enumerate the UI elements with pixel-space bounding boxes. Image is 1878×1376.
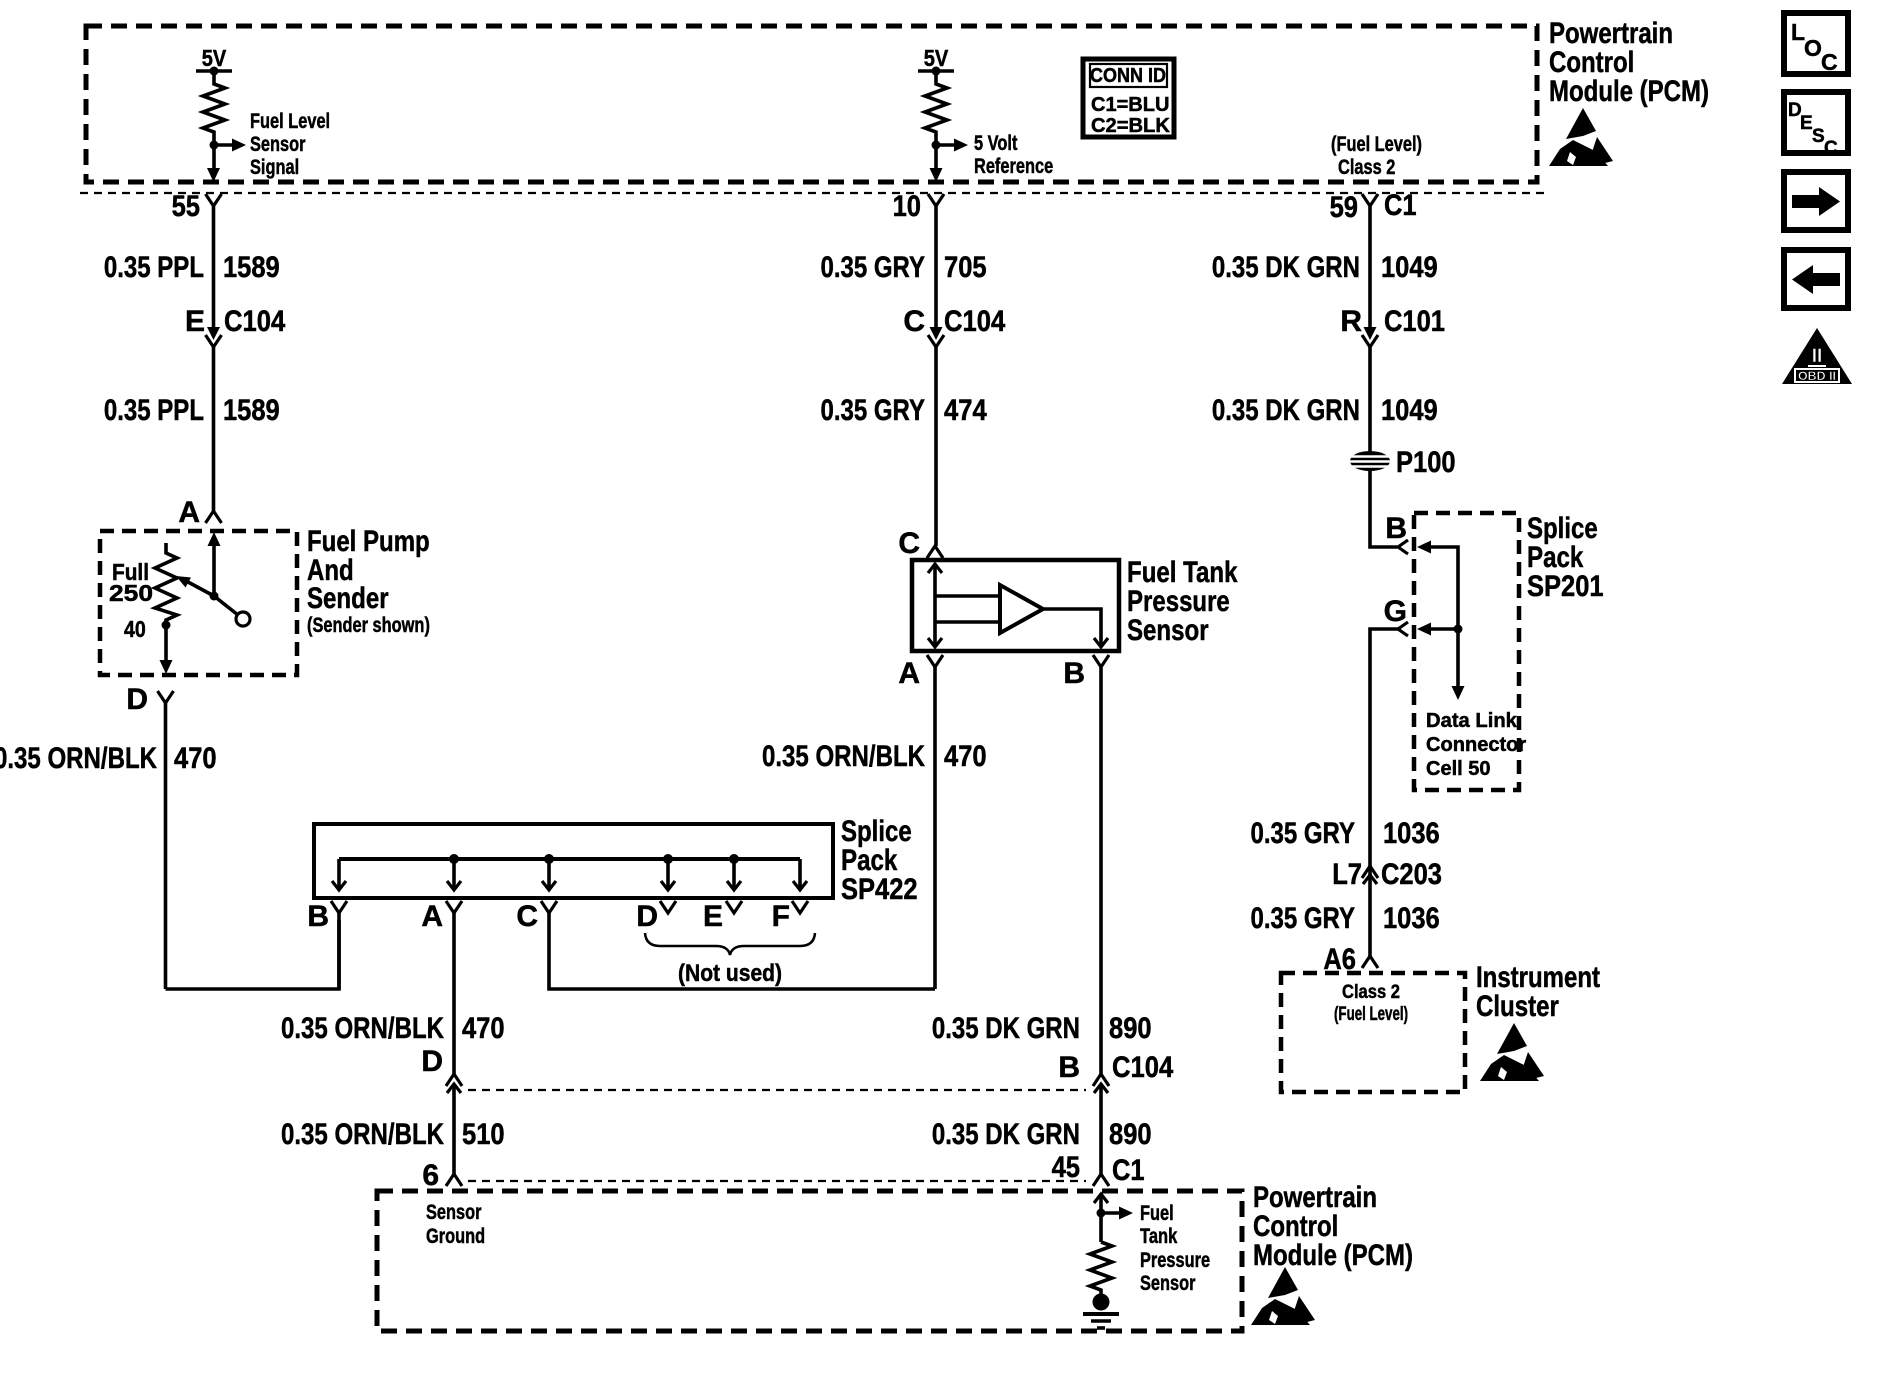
node at 40 tap — [162, 621, 171, 630]
ESD symbol (top PCM) — [1549, 108, 1613, 166]
Instrument Cluster dashed box — [1281, 973, 1465, 1092]
ground symbol — [1093, 1294, 1110, 1311]
svg-text:55: 55 — [172, 190, 200, 223]
svg-text:1049: 1049 — [1381, 394, 1438, 427]
svg-text:P100: P100 — [1396, 446, 1456, 479]
svg-text:B: B — [307, 900, 329, 933]
arrow: Fuel Level Sensor Signal — [214, 143, 233, 147]
svg-text:705: 705 — [944, 251, 987, 284]
svg-text:40: 40 — [124, 616, 146, 642]
svg-text:0.35 DK GRN: 0.35 DK GRN — [1212, 394, 1360, 427]
svg-text:474: 474 — [944, 394, 987, 427]
svg-text:F: F — [772, 900, 790, 933]
svg-text:470: 470 — [174, 742, 217, 775]
svg-text:C: C — [516, 900, 538, 933]
svg-text:0.35 GRY: 0.35 GRY — [1251, 902, 1356, 935]
amp input branches — [935, 594, 1000, 598]
svg-text:0.35 DK GRN: 0.35 DK GRN — [932, 1118, 1080, 1151]
svg-text:D: D — [126, 683, 148, 716]
svg-text:59: 59 — [1330, 191, 1358, 224]
svg-text:L7: L7 — [1332, 858, 1362, 891]
wire to splice pack B — [166, 920, 340, 989]
svg-text:Ground: Ground — [426, 1225, 485, 1248]
thin dashed connector line C104 (bottom) — [468, 1089, 1086, 1091]
arrow up into pump at A — [208, 532, 221, 546]
svg-text:6: 6 — [422, 1159, 439, 1192]
bus drop E — [729, 854, 739, 864]
svg-text:Signal: Signal — [250, 156, 299, 179]
sidebar icon back arrow — [1784, 250, 1848, 308]
svg-text:C104: C104 — [224, 305, 285, 338]
svg-text:Pressure: Pressure — [1140, 1249, 1210, 1272]
svg-text:C: C — [1821, 49, 1838, 75]
sidebar icon LOC — [1784, 13, 1848, 74]
arrow down to pin 55 — [207, 168, 220, 182]
svg-text:Fuel Level: Fuel Level — [250, 110, 330, 133]
svg-text:Cluster: Cluster — [1476, 990, 1559, 1023]
wire SP422 A down — [452, 913, 456, 1075]
svg-text:1036: 1036 — [1383, 902, 1440, 935]
wire sensor B down — [1099, 667, 1103, 1075]
sensor internal supply line — [933, 564, 937, 647]
wire sensor A down — [933, 667, 937, 989]
svg-text:Data Link: Data Link — [1426, 710, 1518, 732]
svg-text:Module (PCM): Module (PCM) — [1253, 1239, 1413, 1272]
svg-text:E: E — [1800, 113, 1813, 134]
svg-text:0.35 ORN/BLK: 0.35 ORN/BLK — [762, 740, 925, 773]
svg-text:0.35 PPL: 0.35 PPL — [104, 394, 204, 427]
brace (Not used) — [645, 933, 815, 955]
wire C104 to pump A — [212, 347, 216, 512]
Fuel Tank Pressure Sensor box — [912, 560, 1119, 651]
wire G down to cluster — [1370, 629, 1398, 956]
SP201 internal arrow down to DLC — [1456, 629, 1460, 688]
svg-text:CONN ID: CONN ID — [1090, 65, 1166, 87]
svg-text:C104: C104 — [1112, 1051, 1173, 1084]
svg-text:C101: C101 — [1384, 305, 1445, 338]
op-amp (sensor amplifier) — [1000, 585, 1043, 633]
sender resistor (Full 250 / 40) — [155, 543, 177, 625]
sidebar icon OBD II triangle — [1782, 328, 1852, 384]
svg-text:D: D — [421, 1045, 443, 1078]
svg-text:B: B — [1385, 512, 1407, 545]
wire D down — [164, 703, 168, 989]
svg-text:Fuel: Fuel — [1140, 1202, 1174, 1225]
svg-text:Class 2: Class 2 — [1342, 982, 1400, 1003]
svg-text:S: S — [1812, 126, 1825, 147]
svg-text:II: II — [1812, 346, 1823, 367]
svg-text:250: 250 — [109, 580, 153, 606]
amp output to B — [1043, 609, 1101, 646]
svg-text:C: C — [898, 527, 920, 560]
svg-text:Reference: Reference — [974, 155, 1053, 178]
svg-text:A: A — [421, 900, 443, 933]
svg-text:OBD II: OBD II — [1798, 369, 1836, 383]
svg-text:0.35 PPL: 0.35 PPL — [104, 251, 204, 284]
svg-text:0.35 DK GRN: 0.35 DK GRN — [932, 1012, 1080, 1045]
svg-text:0.35 GRY: 0.35 GRY — [821, 251, 926, 284]
svg-text:Sensor: Sensor — [1140, 1272, 1196, 1295]
wire SP422 B stem — [337, 913, 341, 989]
wire SP422 C to sensor A — [549, 913, 935, 989]
Splice Pack SP201 dashed box — [1414, 513, 1519, 790]
svg-text:Cell 50: Cell 50 — [1426, 758, 1491, 780]
svg-text:(Not used): (Not used) — [678, 960, 782, 987]
svg-text:470: 470 — [462, 1012, 505, 1045]
svg-text:B: B — [1058, 1051, 1080, 1084]
sidebar icon DESC — [1784, 92, 1848, 153]
resistor (5V reference, in PCM) — [925, 71, 947, 170]
svg-text:Class 2: Class 2 — [1338, 156, 1395, 179]
bus drop F — [798, 859, 802, 889]
svg-text:E: E — [185, 305, 205, 338]
splice bus — [339, 857, 800, 861]
svg-text:R: R — [1340, 305, 1362, 338]
svg-text:470: 470 — [944, 740, 987, 773]
svg-text:0.35 GRY: 0.35 GRY — [1251, 817, 1356, 850]
arrow: Fuel Tank Pressure Sensor (internal) — [1101, 1211, 1120, 1215]
CONN ID table — [1083, 59, 1174, 137]
ESD symbol (bottom PCM) — [1251, 1267, 1315, 1325]
svg-text:Sensor: Sensor — [426, 1201, 482, 1224]
svg-text:A: A — [178, 496, 200, 529]
svg-text:1036: 1036 — [1383, 817, 1440, 850]
svg-text:SP201: SP201 — [1527, 570, 1604, 603]
node: fuel level sensor signal tap — [210, 141, 219, 150]
svg-text:C104: C104 — [944, 305, 1005, 338]
svg-text:1049: 1049 — [1381, 251, 1438, 284]
SP201 internal junction — [1454, 625, 1463, 634]
arrow down to pump D — [164, 625, 168, 661]
svg-text:O: O — [1804, 35, 1822, 61]
svg-text:C: C — [1824, 138, 1838, 159]
svg-text:Connector: Connector — [1426, 734, 1526, 756]
arrow down to pin 10 — [930, 168, 943, 182]
svg-text:0.35 ORN/BLK: 0.35 ORN/BLK — [0, 742, 157, 775]
bus drop D — [663, 854, 673, 864]
bus drop A — [449, 854, 459, 864]
svg-text:0.35 DK GRN: 0.35 DK GRN — [1212, 251, 1360, 284]
svg-text:C: C — [903, 305, 925, 338]
resistor (fuel level pull-up, in PCM) — [203, 71, 225, 170]
svg-text:510: 510 — [462, 1118, 505, 1151]
svg-text:45: 45 — [1052, 1151, 1080, 1184]
svg-text:(Fuel Level): (Fuel Level) — [1334, 1004, 1408, 1025]
sidebar icon forward arrow — [1784, 172, 1848, 230]
wiper arm to contact circle — [214, 596, 238, 615]
svg-text:10: 10 — [893, 190, 921, 223]
Splice Pack SP422 box — [314, 824, 833, 898]
svg-text:0.35 ORN/BLK: 0.35 ORN/BLK — [281, 1118, 444, 1151]
svg-text:C1: C1 — [1112, 1154, 1145, 1187]
bus drop B — [337, 859, 341, 889]
wiper arrow toward resistor — [188, 582, 214, 596]
PCM (top) dashed box — [86, 26, 1537, 182]
pin 45 internal arrow up — [1094, 1194, 1108, 1203]
svg-text:0.35 GRY: 0.35 GRY — [821, 394, 926, 427]
wire 59 down — [1368, 206, 1372, 330]
thin dashed connector line (bottom PCM) — [468, 1180, 1086, 1182]
grommet P100 — [1350, 451, 1390, 471]
node at 45 — [1097, 1209, 1106, 1218]
bus drop C — [544, 854, 554, 864]
svg-text:Sensor: Sensor — [1127, 614, 1209, 647]
svg-text:C1=BLU: C1=BLU — [1091, 94, 1169, 116]
internal resistor (FTP sensor pull-up) — [1090, 1242, 1112, 1294]
svg-text:(Fuel Level): (Fuel Level) — [1331, 133, 1422, 156]
svg-text:SP422: SP422 — [841, 873, 918, 906]
PCM (bottom) dashed box — [377, 1191, 1242, 1331]
svg-text:A: A — [898, 657, 920, 690]
svg-text:Sender: Sender — [307, 582, 389, 615]
svg-text:5 Volt: 5 Volt — [974, 132, 1017, 155]
wiper junction — [210, 592, 219, 601]
svg-text:Tank: Tank — [1140, 1225, 1178, 1248]
svg-text:890: 890 — [1109, 1118, 1152, 1151]
svg-text:B: B — [1063, 657, 1085, 690]
arrow: 5 Volt Reference — [936, 143, 955, 147]
svg-text:Module (PCM): Module (PCM) — [1549, 75, 1709, 108]
svg-text:D: D — [636, 900, 658, 933]
svg-text:1589: 1589 — [223, 251, 280, 284]
wire 55 to C104 — [212, 206, 216, 330]
svg-text:(Sender shown): (Sender shown) — [307, 614, 430, 637]
svg-text:C2=BLK: C2=BLK — [1091, 115, 1170, 137]
svg-text:Sensor: Sensor — [250, 133, 306, 156]
SP201 internal G arrow — [1417, 623, 1431, 636]
node: 5 volt reference tap — [932, 141, 941, 150]
svg-text:1589: 1589 — [223, 394, 280, 427]
svg-text:E: E — [703, 900, 723, 933]
svg-text:L: L — [1791, 19, 1805, 45]
svg-text:0.35 ORN/BLK: 0.35 ORN/BLK — [281, 1012, 444, 1045]
svg-text:G: G — [1384, 595, 1407, 628]
Fuel Pump And Sender dashed box — [100, 531, 297, 675]
SP201 internal B arrow — [1417, 541, 1431, 554]
svg-text:C1: C1 — [1384, 189, 1417, 222]
wire P100 to SP201 B — [1370, 471, 1397, 547]
thin dashed connector face line (PCM C1/C2) — [80, 192, 1548, 194]
svg-text:890: 890 — [1109, 1012, 1152, 1045]
ESD symbol (instrument cluster) — [1480, 1023, 1544, 1081]
svg-text:C203: C203 — [1381, 858, 1442, 891]
